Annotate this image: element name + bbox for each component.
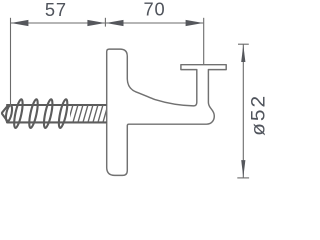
svg-text:70: 70: [144, 0, 166, 20]
svg-text:57: 57: [45, 0, 67, 20]
svg-text:ø52: ø52: [248, 94, 269, 136]
